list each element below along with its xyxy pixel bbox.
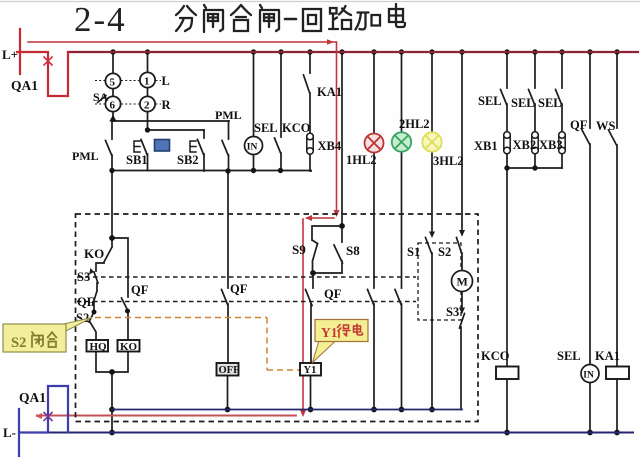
- svg-text:KO: KO: [120, 341, 138, 353]
- svg-text:3HL2: 3HL2: [433, 154, 464, 168]
- svg-text:QF: QF: [131, 283, 149, 297]
- svg-text:QF: QF: [230, 282, 248, 296]
- svg-text:2HL2: 2HL2: [399, 117, 430, 131]
- svg-text:SEL: SEL: [511, 96, 535, 110]
- svg-text:SA: SA: [93, 90, 109, 104]
- svg-text:1: 1: [144, 76, 150, 88]
- svg-text:QF: QF: [77, 295, 95, 309]
- svg-text:5: 5: [110, 77, 116, 89]
- svg-text:S2: S2: [438, 245, 451, 259]
- svg-text:L-: L-: [3, 425, 16, 440]
- svg-text:S3: S3: [446, 305, 459, 319]
- svg-text:QA1: QA1: [11, 78, 38, 93]
- svg-text:S1: S1: [407, 245, 420, 259]
- svg-text:6: 6: [110, 100, 116, 112]
- svg-text:L+: L+: [2, 47, 18, 62]
- svg-text:KCO: KCO: [282, 121, 311, 135]
- svg-text:SB2: SB2: [177, 153, 199, 167]
- svg-text:KA1: KA1: [595, 349, 620, 363]
- svg-text:XB4: XB4: [318, 139, 342, 153]
- svg-text:2: 2: [144, 100, 150, 112]
- svg-text:SEL: SEL: [254, 121, 278, 135]
- svg-text:2-4: 2-4: [74, 0, 127, 39]
- svg-text:IN: IN: [247, 143, 258, 153]
- svg-text:QF: QF: [324, 287, 342, 301]
- svg-text:PML: PML: [72, 149, 99, 163]
- svg-text:L: L: [162, 74, 170, 88]
- svg-text:S3: S3: [77, 270, 90, 284]
- svg-text:PML: PML: [215, 108, 242, 122]
- svg-text:SEL: SEL: [538, 96, 562, 110]
- svg-text:KCO: KCO: [481, 349, 510, 363]
- svg-text:Y1: Y1: [304, 365, 317, 376]
- svg-text:XB2: XB2: [513, 138, 537, 152]
- svg-text:HQ: HQ: [90, 341, 108, 353]
- svg-text:XB1: XB1: [474, 139, 498, 153]
- svg-text:QF: QF: [570, 118, 588, 132]
- svg-text:SEL: SEL: [557, 349, 581, 363]
- svg-text:M: M: [457, 275, 468, 289]
- svg-text:Y1: Y1: [321, 325, 338, 340]
- svg-text:KA1: KA1: [317, 85, 342, 99]
- svg-text:WS: WS: [596, 119, 616, 133]
- svg-text:XB3: XB3: [539, 138, 563, 152]
- svg-text:KO: KO: [84, 246, 104, 261]
- svg-text:R: R: [162, 98, 172, 112]
- svg-text:S2: S2: [11, 335, 26, 351]
- svg-text:QA1: QA1: [19, 390, 46, 405]
- svg-text:OFF: OFF: [219, 365, 240, 376]
- svg-text:1HL2: 1HL2: [346, 153, 377, 167]
- svg-text:S9: S9: [292, 242, 306, 257]
- svg-text:SB1: SB1: [126, 153, 148, 167]
- svg-text:SEL: SEL: [478, 94, 502, 108]
- svg-text:S8: S8: [346, 243, 360, 258]
- svg-text:IN: IN: [583, 371, 594, 381]
